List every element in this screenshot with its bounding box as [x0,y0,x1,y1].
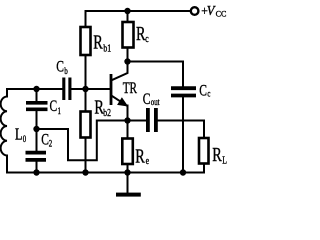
wire Rb2 bottom lead [85,138,87,173]
svg-text:C: C [50,98,58,115]
svg-text:out: out [151,97,160,107]
transistor TR base bar [110,74,113,105]
svg-text:C: C [199,83,207,100]
wire L0 bottom lead [6,156,8,173]
wire Rb2 top lead [85,89,87,112]
capacitor Cout plates [148,108,156,132]
wire emitter of TR [112,96,128,121]
wire C2 bottom lead [36,162,38,173]
wire C1/C2 tap zigzag to emitter [37,121,128,161]
transistor TR emitter arrow [118,98,127,106]
terminal +Vcc [191,7,199,15]
svg-text:e: e [146,155,149,166]
svg-text:L: L [222,154,227,165]
junction dot C1/C2 tap [33,126,39,132]
svg-text:c: c [207,88,210,98]
svg-text:C: C [56,59,64,76]
svg-text:C: C [143,92,151,109]
svg-text:CC: CC [216,9,227,18]
wire collector rail to Cc [128,62,184,87]
wire Cb to base node [71,88,110,90]
junction dot Cc / bottom rail [180,169,186,175]
wire output rail (emitter to Cout) [128,120,146,122]
junction dot tank top / C1 [33,86,39,92]
resistor Rc body [123,22,134,48]
wire RL bottom lead [203,164,205,173]
wire Rb1 top lead [85,11,87,27]
junction dot Rb2 / bottom rail [82,169,88,175]
junction dot emitter node [124,117,130,123]
wire Rc bottom lead [127,48,129,62]
wire tank top rail (L0 to Cb) [7,89,62,97]
junction dot C2 / bottom rail [33,169,39,175]
svg-text:b: b [64,66,67,76]
svg-text:2: 2 [49,138,52,148]
svg-text:R: R [93,31,103,53]
ground symbol [116,193,141,197]
junction dot collector node [124,58,130,64]
svg-text:0: 0 [23,134,26,144]
capacitor C1 plates [26,103,48,110]
junction dot top rail / Rc [124,8,130,14]
capacitor Cc plates [171,88,196,95]
wire Rc top lead [127,11,129,22]
wire C2 top lead [36,129,38,151]
svg-text:TR: TR [123,79,138,96]
wire collector of TR [112,62,128,81]
junction dot Re / bottom rail [124,169,130,175]
wire Cc bottom lead [182,98,184,173]
svg-text:R: R [135,146,145,168]
svg-text:c: c [145,33,148,44]
wire Rb1 bottom lead [85,55,87,89]
wire bottom ground rail [7,172,204,174]
inductor L0 coil [1,97,7,156]
wire top +Vcc rail [86,10,191,12]
wire ground stub [127,173,129,193]
capacitor Cb plates [64,78,70,101]
svg-text:b1: b1 [103,42,111,53]
svg-text:C: C [41,132,49,149]
wire C1 top lead [36,89,38,101]
svg-text:1: 1 [58,106,61,116]
wire Re bottom lead [127,164,129,173]
capacitor C2 plates [26,153,47,160]
svg-text:b2: b2 [103,107,111,118]
wire Re top lead [127,121,129,139]
resistor Re body [122,139,133,165]
svg-text:L: L [15,126,22,144]
junction dot base node [82,86,88,92]
wire Cout to RL [158,121,204,139]
resistor RL body [199,138,209,164]
svg-text:R: R [212,144,222,166]
wire C1 bottom lead [36,111,38,129]
resistor Rb2 body [81,112,91,138]
resistor Rb1 body [81,27,91,55]
